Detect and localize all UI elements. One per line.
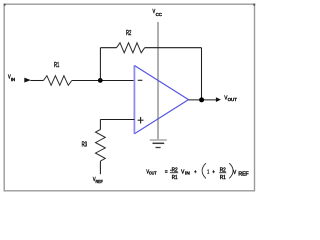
svg-text:+: + bbox=[194, 169, 196, 175]
wire: feedback right vertical bbox=[201, 48, 203, 100]
formula: Vout = -R2/R1 Vin + (1 + R2/R1) Vref bbox=[146, 163, 248, 181]
resistor R2 bbox=[117, 43, 145, 53]
wire: plus input horizontal bbox=[100, 119, 134, 121]
svg-text:R1: R1 bbox=[54, 62, 59, 69]
wire: R1 to inverting input bbox=[72, 80, 135, 82]
resistor R1 bbox=[43, 76, 71, 86]
label VREF bbox=[93, 177, 103, 184]
svg-text:R1: R1 bbox=[220, 175, 226, 181]
svg-text:REF: REF bbox=[238, 171, 248, 177]
node A junction dot bbox=[98, 78, 103, 83]
resistor R3 bbox=[96, 130, 106, 162]
svg-text:R2: R2 bbox=[126, 30, 131, 37]
svg-text:CC: CC bbox=[156, 12, 162, 17]
input arrow bbox=[24, 78, 31, 83]
border frame bbox=[4, 4, 254, 191]
svg-text:IN: IN bbox=[11, 77, 15, 82]
wire: feedback top left bbox=[100, 47, 116, 49]
svg-text:OUT: OUT bbox=[149, 171, 157, 176]
output arrow bbox=[216, 97, 221, 102]
output node junction dot bbox=[199, 97, 204, 102]
svg-text:R1: R1 bbox=[172, 175, 178, 181]
label VOUT bbox=[224, 95, 237, 102]
svg-text:+: + bbox=[212, 169, 214, 175]
op-amp plus sign bbox=[138, 117, 144, 124]
svg-text:IN: IN bbox=[185, 171, 190, 176]
wire: arrow to R1 bbox=[31, 80, 44, 82]
op-amp minus sign bbox=[138, 79, 143, 81]
ground bbox=[150, 140, 167, 148]
svg-text:=: = bbox=[165, 169, 168, 175]
svg-text:1: 1 bbox=[207, 169, 209, 175]
op-amp U1 bbox=[133, 66, 135, 134]
wire: feedback left vertical bbox=[99, 48, 101, 81]
svg-text:V: V bbox=[233, 170, 236, 176]
svg-text:REF: REF bbox=[96, 179, 104, 184]
svg-text:OUT: OUT bbox=[228, 97, 237, 102]
Vcc supply line bbox=[157, 22, 159, 139]
svg-text:V: V bbox=[181, 169, 184, 175]
wire: op-amp output bbox=[189, 99, 217, 101]
label VCC bbox=[153, 9, 162, 17]
wire: R3 to VREF bbox=[99, 161, 101, 174]
svg-text:R3: R3 bbox=[82, 141, 87, 148]
wire: plus input vertical down to R3 bbox=[99, 120, 101, 130]
label VIN bbox=[8, 75, 15, 82]
wire: feedback top right bbox=[145, 47, 202, 49]
